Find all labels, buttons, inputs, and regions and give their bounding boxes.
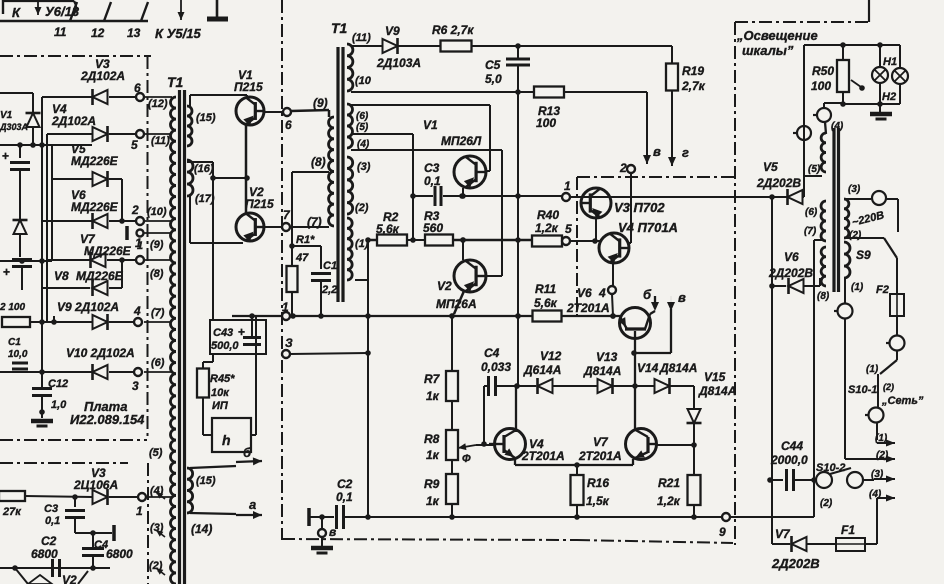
svg-text:К У5/15: К У5/15 bbox=[155, 26, 201, 41]
svg-text:С3: С3 bbox=[44, 503, 58, 515]
svg-text:(3): (3) bbox=[357, 161, 371, 173]
svg-text:100: 100 bbox=[811, 79, 831, 93]
svg-text:+: + bbox=[238, 325, 245, 339]
svg-text:(1): (1) bbox=[866, 364, 879, 375]
svg-text:С12: С12 bbox=[48, 378, 68, 390]
svg-text:V1: V1 bbox=[0, 110, 13, 121]
svg-text:R45*: R45* bbox=[210, 373, 235, 385]
svg-text:1к: 1к bbox=[426, 389, 440, 403]
svg-text:R11: R11 bbox=[535, 282, 556, 296]
svg-text:R16: R16 bbox=[587, 476, 609, 490]
svg-text:560: 560 bbox=[423, 221, 443, 235]
svg-text:0,033: 0,033 bbox=[481, 360, 511, 374]
svg-text:1: 1 bbox=[137, 240, 143, 252]
svg-text:П215: П215 bbox=[245, 197, 274, 211]
svg-text:Д814А: Д814А bbox=[659, 361, 697, 375]
svg-text:0,1: 0,1 bbox=[424, 174, 441, 188]
svg-text:2Д202В: 2Д202В bbox=[756, 176, 801, 190]
svg-text:V2: V2 bbox=[437, 279, 452, 293]
svg-text:2Д202В: 2Д202В bbox=[771, 556, 820, 571]
svg-text:(1): (1) bbox=[875, 433, 888, 444]
svg-text:1,2к: 1,2к bbox=[657, 494, 681, 508]
svg-text:1: 1 bbox=[136, 504, 143, 518]
svg-text:V9 2Д102А: V9 2Д102А bbox=[57, 300, 119, 314]
svg-text:1,2к: 1,2к bbox=[535, 221, 559, 235]
svg-text:Ф: Ф bbox=[462, 453, 471, 465]
svg-text:1к: 1к bbox=[426, 494, 440, 508]
svg-text:V7: V7 bbox=[593, 435, 609, 449]
svg-text:6800: 6800 bbox=[31, 547, 58, 561]
svg-text:Д614А: Д614А bbox=[523, 363, 561, 377]
svg-text:„Освещение: „Освещение bbox=[736, 28, 818, 43]
svg-text:S10-2: S10-2 bbox=[816, 462, 845, 474]
svg-text:1,5к: 1,5к bbox=[586, 494, 610, 508]
svg-text:1к: 1к bbox=[426, 448, 440, 462]
svg-text:R40: R40 bbox=[537, 208, 559, 222]
svg-text:(6): (6) bbox=[805, 207, 818, 218]
svg-text:(7): (7) bbox=[307, 215, 322, 229]
svg-text:6: 6 bbox=[285, 118, 292, 132]
svg-text:R50: R50 bbox=[812, 64, 834, 78]
svg-text:(4): (4) bbox=[831, 121, 844, 132]
svg-text:5,0: 5,0 bbox=[485, 72, 502, 86]
svg-text:Т1: Т1 bbox=[167, 74, 184, 90]
svg-text:Т1: Т1 bbox=[331, 20, 348, 36]
svg-text:R8: R8 bbox=[424, 432, 440, 446]
svg-text:С44: С44 bbox=[781, 439, 803, 453]
svg-text:V6: V6 bbox=[577, 286, 592, 300]
svg-text:(8): (8) bbox=[817, 291, 830, 302]
svg-text:V3 П702: V3 П702 bbox=[614, 200, 665, 215]
svg-text:R21: R21 bbox=[658, 476, 680, 490]
svg-text:V1: V1 bbox=[423, 118, 438, 132]
svg-text:S10-1: S10-1 bbox=[848, 384, 877, 396]
svg-text:V5: V5 bbox=[763, 160, 778, 174]
svg-text:С1: С1 bbox=[323, 260, 337, 272]
svg-text:0,1: 0,1 bbox=[45, 515, 60, 527]
svg-text:R6 2,7к: R6 2,7к bbox=[432, 23, 474, 37]
svg-text:4: 4 bbox=[598, 286, 606, 300]
svg-text:МП26Л: МП26Л bbox=[441, 134, 482, 148]
svg-text:(9): (9) bbox=[150, 239, 164, 251]
svg-text:(2): (2) bbox=[883, 382, 894, 392]
svg-text:(2): (2) bbox=[876, 450, 889, 461]
svg-text:(10: (10 bbox=[355, 75, 372, 87]
svg-text:2Т201А: 2Т201А bbox=[521, 449, 565, 463]
svg-text:(11): (11) bbox=[151, 135, 170, 147]
svg-text:1: 1 bbox=[282, 300, 289, 314]
svg-text:(10): (10) bbox=[147, 206, 167, 218]
svg-text:(2): (2) bbox=[849, 230, 862, 241]
svg-text:(12): (12) bbox=[148, 98, 168, 110]
svg-text:(9): (9) bbox=[313, 96, 328, 110]
svg-text:F1: F1 bbox=[841, 523, 855, 537]
svg-text:R7: R7 bbox=[424, 372, 441, 386]
svg-text:(4): (4) bbox=[357, 139, 370, 150]
svg-text:в: в bbox=[653, 144, 661, 159]
svg-text:З: З bbox=[285, 336, 293, 350]
svg-text:Н1: Н1 bbox=[883, 56, 897, 68]
svg-text:С2: С2 bbox=[41, 534, 57, 548]
svg-text:V15: V15 bbox=[704, 370, 726, 384]
svg-text:(16): (16) bbox=[194, 163, 214, 175]
svg-text:2Д102А: 2Д102А bbox=[80, 69, 125, 83]
svg-text:И22.089.154: И22.089.154 bbox=[70, 412, 145, 427]
svg-text:а: а bbox=[249, 497, 256, 512]
svg-text:2Д202В: 2Д202В bbox=[768, 266, 813, 280]
svg-text:(2): (2) bbox=[355, 202, 369, 214]
svg-text:(15): (15) bbox=[196, 112, 216, 124]
svg-text:V7: V7 bbox=[775, 527, 791, 541]
svg-text:3: 3 bbox=[132, 379, 139, 393]
svg-text:V4 П701А: V4 П701А bbox=[618, 220, 678, 235]
svg-text:47: 47 bbox=[295, 252, 309, 264]
svg-text:в: в bbox=[329, 525, 336, 539]
svg-text:2Т201А: 2Т201А bbox=[578, 449, 622, 463]
svg-text:V8: V8 bbox=[54, 269, 69, 283]
svg-text:шкалы”: шкалы” bbox=[742, 43, 794, 58]
svg-text:ИП: ИП bbox=[212, 400, 229, 412]
svg-text:Н2: Н2 bbox=[882, 91, 896, 103]
svg-text:МД226Е: МД226Е bbox=[76, 269, 124, 283]
svg-text:4: 4 bbox=[133, 304, 141, 318]
svg-text:2: 2 bbox=[619, 161, 627, 175]
svg-text:500,0: 500,0 bbox=[211, 340, 239, 352]
svg-text:(8): (8) bbox=[311, 155, 326, 169]
svg-text:1: 1 bbox=[564, 179, 571, 193]
svg-text:2Ц106А: 2Ц106А bbox=[73, 478, 118, 492]
svg-text:(17): (17) bbox=[195, 193, 215, 205]
svg-text:(5): (5) bbox=[808, 164, 821, 175]
svg-text:(3): (3) bbox=[871, 469, 884, 480]
svg-text:МД226Е: МД226Е bbox=[84, 244, 132, 258]
svg-text:2Т201А: 2Т201А bbox=[566, 301, 610, 315]
svg-text:V10 2Д102А: V10 2Д102А bbox=[66, 346, 135, 360]
svg-text:12: 12 bbox=[91, 26, 105, 40]
svg-text:2000,0: 2000,0 bbox=[770, 453, 808, 467]
svg-text:V2: V2 bbox=[62, 573, 77, 584]
svg-text:5,6к: 5,6к bbox=[534, 296, 558, 310]
svg-text:С3: С3 bbox=[424, 161, 440, 175]
svg-text:МД226Е: МД226Е bbox=[71, 154, 119, 168]
svg-text:V14: V14 bbox=[637, 361, 659, 375]
svg-text:5: 5 bbox=[131, 138, 138, 152]
svg-text:1,0: 1,0 bbox=[51, 399, 67, 411]
svg-text:2 100: 2 100 bbox=[0, 302, 25, 313]
svg-text:С5: С5 bbox=[485, 58, 501, 72]
svg-text:27к: 27к bbox=[2, 506, 22, 518]
svg-text:11: 11 bbox=[54, 25, 67, 39]
svg-text:2: 2 bbox=[131, 203, 139, 217]
svg-text:R9: R9 bbox=[424, 477, 440, 491]
svg-text:С4: С4 bbox=[484, 346, 500, 360]
svg-text:(4): (4) bbox=[869, 489, 882, 500]
svg-text:(6): (6) bbox=[151, 357, 165, 369]
svg-text:0,1: 0,1 bbox=[336, 490, 353, 504]
svg-text:(7): (7) bbox=[151, 307, 165, 319]
svg-text:Д303А: Д303А bbox=[0, 122, 28, 132]
svg-text:V13: V13 bbox=[596, 350, 618, 364]
svg-text:6800: 6800 bbox=[106, 547, 133, 561]
svg-text:(11): (11) bbox=[352, 32, 371, 44]
svg-text:С1: С1 bbox=[8, 337, 21, 348]
svg-text:(5): (5) bbox=[149, 447, 163, 459]
svg-text:V12: V12 bbox=[540, 349, 562, 363]
svg-text:(15): (15) bbox=[196, 475, 216, 487]
svg-text:2,2: 2,2 bbox=[321, 284, 337, 296]
svg-text:в: в bbox=[678, 290, 686, 305]
svg-text:С43: С43 bbox=[213, 327, 233, 339]
svg-text:2,7к: 2,7к bbox=[681, 79, 706, 93]
svg-text:2Д102А: 2Д102А bbox=[51, 114, 96, 128]
svg-text:МД226Е: МД226Е bbox=[71, 200, 119, 214]
svg-text:б: б bbox=[643, 287, 652, 302]
svg-text:5: 5 bbox=[565, 222, 572, 236]
svg-text:П215: П215 bbox=[234, 80, 263, 94]
svg-text:(8): (8) bbox=[150, 268, 164, 280]
svg-text:10,0: 10,0 bbox=[8, 349, 28, 360]
svg-text:F2: F2 bbox=[876, 284, 889, 296]
svg-text:13: 13 bbox=[127, 26, 141, 40]
svg-text:Д814А: Д814А bbox=[583, 364, 621, 378]
svg-text:(2): (2) bbox=[820, 498, 833, 509]
svg-text:2Д103А: 2Д103А bbox=[376, 56, 421, 70]
svg-text:100: 100 bbox=[536, 116, 556, 130]
svg-text:(6): (6) bbox=[356, 111, 369, 122]
svg-text:Д814А: Д814А bbox=[698, 384, 736, 398]
svg-text:(14): (14) bbox=[191, 522, 212, 536]
svg-text:К: К bbox=[12, 5, 21, 20]
svg-text:h: h bbox=[222, 432, 231, 448]
svg-text:г: г bbox=[682, 145, 689, 160]
svg-text:R19: R19 bbox=[682, 64, 704, 78]
svg-text:„Сеть”: „Сеть” bbox=[881, 395, 924, 407]
svg-text:R1*: R1* bbox=[296, 234, 315, 246]
svg-text:+: + bbox=[3, 265, 10, 279]
svg-text:(7): (7) bbox=[804, 226, 817, 237]
svg-text:6: 6 bbox=[134, 81, 141, 95]
svg-text:V6: V6 bbox=[784, 250, 799, 264]
svg-text:10к: 10к bbox=[211, 387, 230, 399]
svg-text:V9: V9 bbox=[385, 24, 400, 38]
svg-text:(3): (3) bbox=[848, 184, 861, 195]
svg-text:+: + bbox=[2, 149, 9, 163]
svg-text:S9: S9 bbox=[856, 248, 871, 262]
svg-text:С2: С2 bbox=[337, 477, 353, 491]
svg-text:5,6к: 5,6к bbox=[376, 222, 400, 236]
svg-text:(5): (5) bbox=[356, 122, 369, 133]
svg-text:(1): (1) bbox=[851, 282, 864, 293]
svg-text:9: 9 bbox=[719, 525, 726, 539]
